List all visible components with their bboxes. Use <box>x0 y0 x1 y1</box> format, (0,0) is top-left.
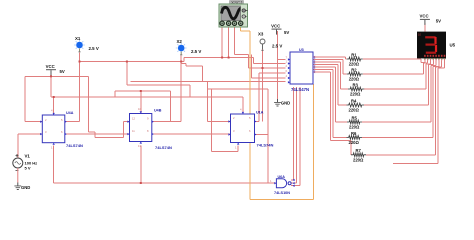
svg-text:R5: R5 <box>352 115 358 120</box>
svg-text:U3: U3 <box>299 48 304 52</box>
svg-text:2.5 V: 2.5 V <box>89 46 99 51</box>
svg-text:U5: U5 <box>450 43 456 48</box>
svg-text:5V: 5V <box>284 30 289 35</box>
svg-text:GND: GND <box>21 185 30 190</box>
svg-text:VCC: VCC <box>420 14 429 19</box>
svg-text:X1: X1 <box>75 36 81 41</box>
svg-text:74LS74N: 74LS74N <box>257 143 274 148</box>
svg-text:U1A: U1A <box>256 111 264 115</box>
svg-text:R6: R6 <box>351 131 357 136</box>
svg-text:U6A: U6A <box>278 175 286 179</box>
svg-text:VCC: VCC <box>271 23 280 28</box>
svg-text:GND: GND <box>281 101 290 106</box>
svg-text:74LS10N: 74LS10N <box>274 191 290 195</box>
svg-text:2.5 V: 2.5 V <box>191 49 201 54</box>
svg-text:5 V: 5 V <box>25 166 31 171</box>
svg-text:13: 13 <box>138 144 141 148</box>
svg-text:12: 12 <box>132 116 135 120</box>
svg-text:220Ω: 220Ω <box>353 157 364 162</box>
svg-text:220Ω: 220Ω <box>349 108 360 113</box>
svg-text:220Ω: 220Ω <box>349 125 360 130</box>
svg-text:220Ω: 220Ω <box>350 92 361 97</box>
svg-text:220Ω: 220Ω <box>349 77 360 82</box>
svg-text:220Ω: 220Ω <box>349 62 360 67</box>
svg-text:V1: V1 <box>25 154 31 159</box>
svg-text:74LS74N: 74LS74N <box>66 143 83 148</box>
svg-text:5V: 5V <box>60 69 65 74</box>
svg-text:220Ω: 220Ω <box>349 140 360 145</box>
svg-text:2.5 V: 2.5 V <box>272 44 282 49</box>
svg-text:R7: R7 <box>356 148 362 153</box>
svg-text:74LS74N: 74LS74N <box>155 145 172 150</box>
svg-text:R4: R4 <box>351 98 357 103</box>
svg-text:10: 10 <box>138 107 141 111</box>
svg-text:VCC: VCC <box>46 64 55 69</box>
svg-text:5V: 5V <box>436 18 441 23</box>
svg-text:X2: X2 <box>177 39 183 44</box>
svg-text:U4A: U4A <box>66 111 74 115</box>
svg-text:74LS47N: 74LS47N <box>291 87 309 92</box>
svg-text:X3: X3 <box>258 32 264 37</box>
svg-text:U4B: U4B <box>154 109 162 113</box>
svg-text:R2: R2 <box>351 67 357 72</box>
svg-text:R3: R3 <box>353 82 359 87</box>
svg-text:R1: R1 <box>351 52 357 57</box>
